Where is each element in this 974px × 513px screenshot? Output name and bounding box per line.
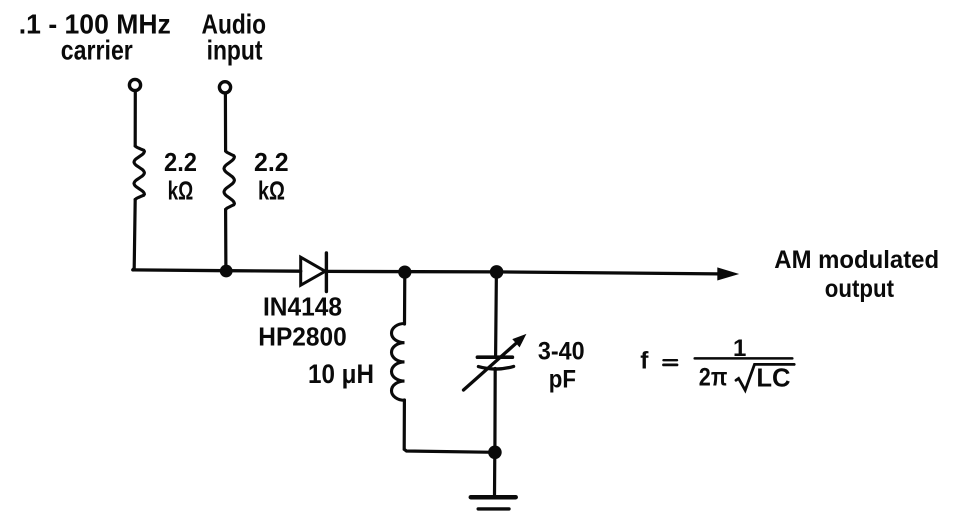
diode D1 cathode bar	[325, 253, 328, 292]
resistor R1 2.2k (carrier side)	[134, 146, 144, 200]
terminal: Audio input	[219, 82, 230, 93]
svg-text:IN4148: IN4148	[263, 294, 342, 322]
formula equals sign (top bar)	[664, 359, 678, 361]
junction dot: capacitor tap on main wire	[490, 265, 504, 279]
wire: inductor branch vertical (bottom) and bottom return to LC node	[404, 400, 495, 452]
resistor R2 2.2k (audio side)	[224, 151, 234, 210]
svg-text:1: 1	[733, 335, 746, 362]
svg-text:output: output	[825, 276, 894, 303]
formula fraction bar	[695, 357, 793, 360]
variable capacitor C1 bottom plate (curved)	[478, 366, 513, 369]
svg-text:LC: LC	[756, 362, 790, 392]
svg-text:f: f	[640, 348, 649, 375]
wire from resistor R2 down to junction on main wire	[224, 210, 227, 271]
svg-text:kΩ: kΩ	[168, 176, 194, 206]
wire: capacitor branch vertical (top)	[494, 272, 498, 356]
wire from audio terminal down to resistor R2	[224, 94, 227, 151]
svg-text:2π: 2π	[699, 365, 728, 392]
svg-text:3-40: 3-40	[538, 338, 585, 366]
junction dot: inductor tap on main wire	[398, 266, 411, 279]
formula equals sign (bottom bar)	[664, 363, 678, 366]
variable capacitor C1 top plate	[477, 355, 512, 359]
ground symbol bar 1	[471, 495, 516, 500]
terminal: .1-100 MHz carrier input	[129, 79, 140, 90]
main horizontal wire: diode cathode to output arrow	[326, 271, 717, 274]
svg-text:AM modulated: AM modulated	[774, 247, 939, 274]
wire: inductor branch vertical (top)	[403, 272, 406, 324]
wire from carrier terminal down to resistor R1	[134, 92, 137, 147]
wire: drop from LC node to ground	[493, 452, 496, 496]
svg-text:pF: pF	[549, 366, 576, 394]
wire from resistor R1 down to main-wire corner	[133, 200, 135, 270]
svg-text:carrier: carrier	[61, 34, 133, 65]
main horizontal wire: node to diode anode	[133, 270, 301, 271]
formula radical sign over LC	[736, 364, 794, 390]
output arrowhead	[717, 267, 739, 280]
junction dot: resistor node on main wire	[220, 265, 233, 278]
diode D1 triangle (anode)	[301, 257, 326, 285]
svg-text:kΩ: kΩ	[258, 176, 285, 206]
ground symbol bar 2	[478, 507, 509, 510]
svg-text:input: input	[207, 34, 263, 65]
svg-text:2.2: 2.2	[164, 147, 197, 177]
variable capacitor arrowhead	[512, 334, 526, 348]
svg-text:2.2: 2.2	[254, 147, 289, 177]
inductor L1 10uH coil of 4 loops	[392, 324, 405, 401]
junction dot: bottom LC node	[488, 446, 502, 460]
svg-text:10 μH: 10 μH	[308, 359, 374, 389]
svg-text:HP2800: HP2800	[258, 323, 346, 351]
wire: capacitor branch vertical (bottom)	[493, 369, 497, 453]
variable capacitor C1 adjustment-arrow shaft	[464, 343, 517, 390]
